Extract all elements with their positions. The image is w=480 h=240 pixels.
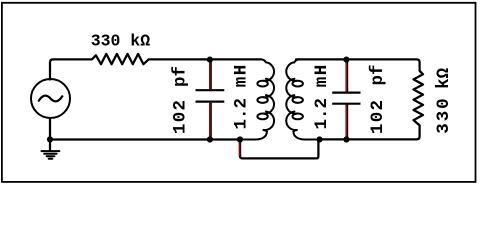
svg-text:mH: mH [312, 63, 332, 87]
svg-text:102: 102 [170, 99, 190, 134]
svg-text:330: 330 [434, 96, 454, 133]
svg-text:kΩ: kΩ [434, 67, 454, 89]
svg-text:pf: pf [368, 64, 388, 85]
svg-text:1.2: 1.2 [312, 98, 332, 130]
svg-text:mH: mH [231, 63, 251, 87]
svg-text:102: 102 [368, 99, 388, 134]
svg-text:pf: pf [170, 66, 190, 87]
svg-text:1.2: 1.2 [231, 98, 251, 130]
svg-text:330 kΩ: 330 kΩ [91, 31, 151, 50]
